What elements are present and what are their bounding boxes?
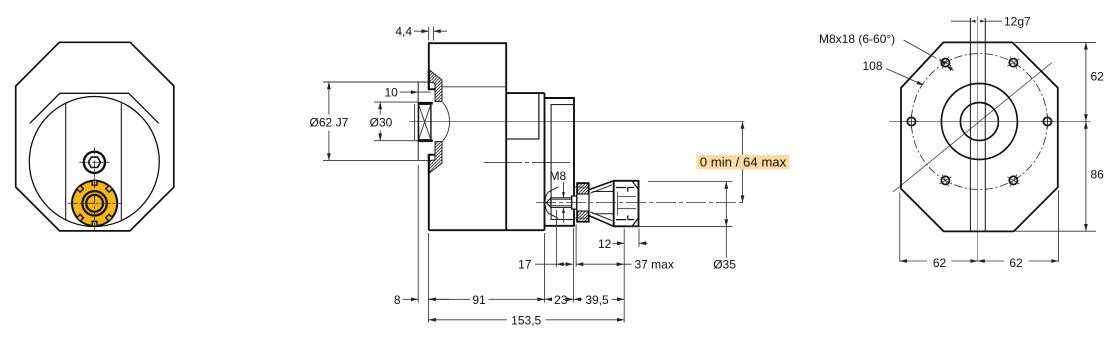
- center screw crosshair: [79, 161, 109, 163]
- dim line 153,5: [429, 319, 625, 321]
- hub clamp tabs: [77, 180, 113, 226]
- svg-text:86: 86: [1091, 168, 1104, 182]
- svg-text:62: 62: [1091, 69, 1104, 83]
- svg-text:62: 62: [1009, 256, 1023, 270]
- mounting holes M8: [904, 57, 1054, 187]
- dim line 4,4: [414, 30, 447, 32]
- slot edge left: [969, 18, 971, 232]
- slot lip upper: [429, 70, 435, 89]
- dim 12g7: [951, 20, 1002, 22]
- dim 0-64: [742, 122, 744, 203]
- front plate octagon outline: [16, 42, 174, 231]
- svg-text:62: 62: [933, 256, 947, 270]
- rear cap chamfer: [551, 105, 574, 220]
- cone outer: [589, 181, 614, 227]
- dim line 8: [403, 298, 449, 300]
- body bottom edge: [429, 229, 545, 231]
- hole 60deg: [1009, 59, 1017, 67]
- connector cavity lines: [618, 192, 637, 216]
- svg-text:M8: M8: [550, 169, 567, 183]
- ext 91 left: [428, 233, 430, 323]
- svg-text:10: 10: [384, 86, 398, 100]
- hub crosshair: [68, 202, 122, 204]
- ext lines 4,4: [429, 27, 434, 41]
- shaft pocket: [545, 187, 558, 218]
- M8 thread lines: [552, 200, 572, 206]
- collar top edge: [323, 81, 429, 83]
- hole 240deg: [941, 176, 949, 184]
- connector bayonet slots: [616, 188, 634, 220]
- svg-text:8: 8: [394, 293, 401, 307]
- collar front face: [417, 82, 419, 160]
- body outline: [429, 43, 506, 230]
- svg-text:39,5: 39,5: [585, 293, 609, 307]
- customer shaft end face: [414, 104, 416, 140]
- ext 62 bottom: [900, 191, 1059, 262]
- svg-text:M8x18 (6-60°): M8x18 (6-60°): [819, 32, 895, 46]
- connector body: [614, 181, 639, 227]
- leader M8x18: [904, 40, 954, 71]
- dim 62/62 bottom: [900, 260, 1059, 262]
- front opening circle: [29, 97, 159, 227]
- clamp ring: [577, 183, 589, 222]
- svg-text:23: 23: [554, 293, 568, 307]
- flange hatch lower: [429, 141, 442, 173]
- wheel hub (orange): [68, 178, 122, 230]
- M8 stub body: [551, 198, 572, 207]
- svg-text:Ø35: Ø35: [713, 258, 736, 272]
- rear vertical centerline: [977, 16, 979, 262]
- highlight box 0min/64max: [697, 155, 790, 169]
- ext 39,5 right: [623, 229, 625, 323]
- svg-text:12: 12: [598, 237, 612, 251]
- right view dimension arrowheads: [900, 20, 1088, 263]
- dim line 17 / 37max: [535, 263, 632, 265]
- rear horizontal centerline: [889, 121, 1091, 123]
- screw hex socket: [88, 157, 100, 167]
- svg-text:4,4: 4,4: [395, 25, 412, 39]
- hub inner rings: [82, 191, 106, 215]
- mid section chamfer: [506, 93, 539, 139]
- bearing block frame: [419, 104, 431, 140]
- slot edge right: [120, 103, 122, 219]
- ext Dia30: [374, 102, 418, 141]
- svg-text:37 max: 37 max: [635, 258, 674, 272]
- cone inner: [591, 185, 614, 221]
- mid section top edge: [506, 92, 544, 94]
- slot edge right: [984, 18, 986, 232]
- svg-text:12g7: 12g7: [1004, 15, 1031, 29]
- svg-text:108: 108: [863, 59, 883, 73]
- shaft dome end: [443, 102, 450, 141]
- dim Dia30: [379, 102, 381, 141]
- shaft shoulder: [572, 196, 577, 209]
- bearing bottom bar: [418, 140, 433, 143]
- leader 108: [886, 69, 922, 85]
- housing inner top edge: [30, 93, 159, 123]
- collar circle Dia62: [941, 84, 1017, 160]
- dim Dia62: [328, 82, 330, 160]
- M8 leader: [563, 182, 565, 223]
- housing chamfer edge: [442, 86, 506, 88]
- svg-text:17: 17: [518, 257, 532, 271]
- hole 0deg: [1043, 117, 1051, 125]
- svg-text:0 min / 64 max: 0 min / 64 max: [700, 155, 787, 170]
- dim 62/86: [1085, 42, 1087, 231]
- ext Dia35 top: [648, 181, 733, 183]
- dim line 91-23-39,5: [429, 298, 625, 300]
- bearing top bar: [418, 102, 433, 105]
- svg-text:Ø30: Ø30: [370, 116, 393, 130]
- bolt circle: [911, 54, 1047, 190]
- ext 62/86 right: [1015, 42, 1097, 231]
- hole 180deg: [907, 117, 915, 125]
- bearing cross: [419, 104, 431, 140]
- connector face chamfers: [632, 181, 638, 226]
- ext 37 left: [575, 225, 577, 268]
- rear octagon: [901, 42, 1058, 231]
- svg-text:153,5: 153,5: [511, 313, 541, 327]
- bore circle Dia30: [960, 103, 998, 141]
- clamp ring hatch bottom: [578, 211, 589, 222]
- slot mid centerline: [484, 162, 575, 164]
- ext 23 right: [573, 228, 575, 303]
- angle reference diagonal: [893, 62, 1052, 192]
- dim Dia35: [725, 182, 727, 259]
- ext 12 right: [638, 229, 640, 248]
- axis bore centerline: [409, 121, 745, 123]
- clamp sleeve lines: [574, 187, 589, 218]
- rear cap outline: [545, 98, 575, 226]
- dim line 10: [400, 91, 431, 93]
- hub outer ring: [72, 181, 117, 226]
- ext Dia35 bottom: [626, 225, 733, 227]
- svg-text:91: 91: [472, 293, 486, 307]
- collar bottom edge: [323, 159, 429, 161]
- shaft axis centerline: [536, 202, 746, 204]
- ext 8 left: [417, 165, 419, 303]
- slot edge left: [65, 103, 67, 219]
- ext 91 right: [544, 233, 546, 303]
- slot lip lower: [429, 155, 435, 174]
- M8 stub tip: [546, 198, 551, 207]
- hole 300deg: [1009, 176, 1017, 184]
- dim line 12: [613, 242, 648, 244]
- hole 120deg: [941, 59, 949, 67]
- clamp ring hatch top: [578, 184, 589, 195]
- svg-text:Ø62 J7: Ø62 J7: [310, 116, 349, 130]
- center screw head: [84, 152, 105, 173]
- ext 17 left: [556, 210, 558, 267]
- flange hatch upper: [429, 69, 442, 101]
- middle view dimension arrowheads: [327, 29, 744, 321]
- mid section right edge: [544, 93, 546, 230]
